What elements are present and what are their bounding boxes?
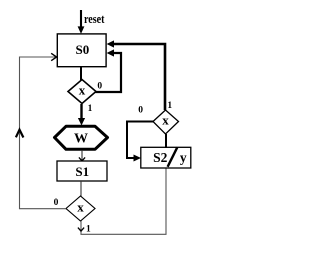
state box S0	[57, 34, 106, 67]
svg-text:x: x	[77, 200, 84, 215]
svg-text:x: x	[162, 112, 169, 127]
decision diamond x3 (right)	[153, 110, 179, 134]
svg-text:1: 1	[86, 224, 91, 234]
wire x2=1 down, right, up into S2/y bottom	[78, 168, 166, 234]
svg-text:reset: reset	[84, 11, 105, 26]
svg-text:W: W	[74, 132, 88, 147]
svg-text:0: 0	[97, 82, 102, 92]
wire S2/y top to decision x3	[165, 134, 167, 148]
wire x3=0 loop into S2/y left edge	[127, 122, 153, 162]
wire S1 to decision x2	[80, 181, 82, 197]
state box S1	[57, 161, 107, 181]
conditional output box W	[55, 126, 108, 149]
wire S0 bottom to decision x1	[80, 67, 82, 80]
svg-text:S2: S2	[153, 150, 168, 165]
svg-text:S1: S1	[75, 164, 89, 179]
svg-text:1: 1	[88, 104, 93, 114]
decision diamond x2 (bottom)	[66, 196, 95, 221]
wire x1=1 down to W	[78, 104, 85, 126]
wire x1=0 loop into S0 right edge	[96, 49, 122, 92]
wire W to S1	[79, 150, 85, 161]
svg-text:0: 0	[138, 106, 143, 116]
reset arrow	[78, 10, 85, 34]
svg-text:0: 0	[54, 198, 59, 208]
direction arrowhead on left wire	[16, 130, 24, 138]
wire x2=0 left and up into S0 left edge	[20, 53, 67, 208]
svg-text:S0: S0	[76, 42, 90, 57]
svg-text:y: y	[180, 150, 187, 165]
wire x3=1 up and left into S0 right edge	[107, 40, 165, 110]
svg-text:x: x	[79, 82, 86, 97]
state box S2/y	[141, 147, 191, 168]
svg-text:1: 1	[167, 101, 172, 111]
decision diamond x1	[68, 80, 96, 104]
